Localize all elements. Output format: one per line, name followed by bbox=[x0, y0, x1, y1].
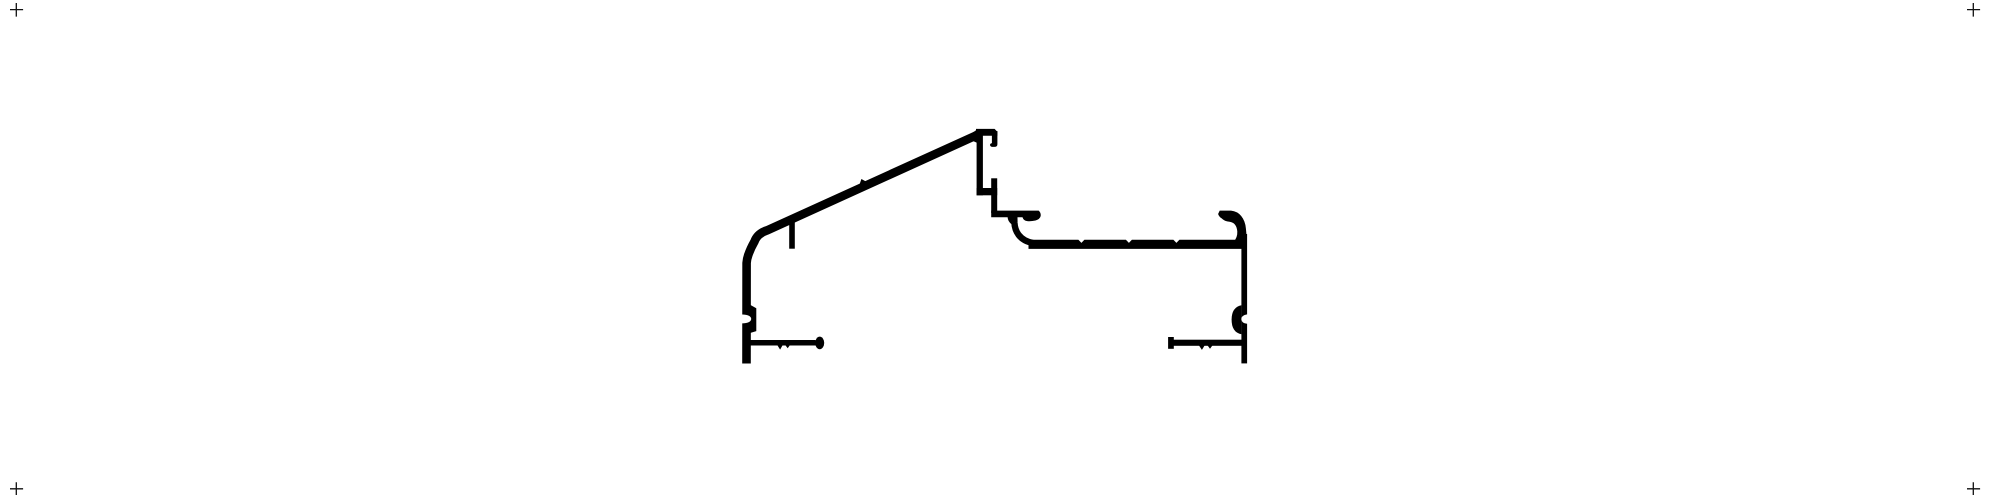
roof-to-cap junction wedge bbox=[969, 129, 978, 143]
channel base line with serration notches bbox=[1029, 240, 1244, 249]
serration tooth on roof top edge bbox=[860, 179, 867, 184]
right foot line bbox=[1174, 340, 1243, 346]
left screw notch bbox=[741, 315, 751, 324]
registration mark bottom-left bbox=[10, 482, 23, 495]
peak cap bbox=[976, 129, 997, 136]
left foot tooth 1 bbox=[777, 345, 782, 349]
right foot tooth 1 bbox=[1199, 346, 1205, 350]
left foot tooth 2 bbox=[785, 345, 789, 348]
profile sloped roof line and left wall (one stroke) bbox=[747, 136, 977, 364]
right screw notch bbox=[1241, 314, 1248, 323]
center stem bbox=[977, 134, 983, 195]
gutter lip bbox=[991, 211, 1041, 222]
right hook curl bbox=[1218, 211, 1247, 242]
step jog bbox=[977, 188, 998, 195]
left screw boss bulge bbox=[751, 305, 757, 333]
glazing tick under roof bbox=[789, 218, 795, 249]
left foot line bbox=[750, 340, 816, 346]
registration mark top-right bbox=[1967, 3, 1980, 17]
gutter s-curve bbox=[1014, 214, 1033, 244]
right wall bbox=[1241, 234, 1247, 363]
peak hook bar bbox=[990, 131, 997, 147]
right screw boss bulge bbox=[1232, 305, 1242, 334]
step vertical bar with stub bbox=[991, 178, 997, 213]
right foot tooth 2 bbox=[1208, 346, 1213, 349]
registration mark bottom-right bbox=[1967, 482, 1980, 495]
gutter elbow fillet bbox=[1008, 217, 1015, 225]
registration mark top-left bbox=[10, 3, 23, 17]
left foot end bulb bbox=[815, 337, 824, 350]
right foot end cap bar bbox=[1168, 337, 1174, 349]
